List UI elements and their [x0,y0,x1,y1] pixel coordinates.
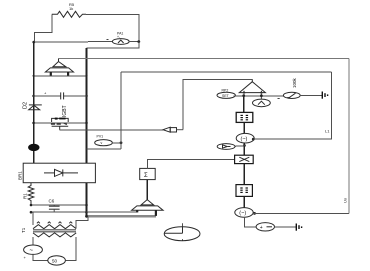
node junction at (261.4,95.8) [260,94,263,97]
wire A2 to node [235,145,244,148]
wire ammeter rail y=41.6 [34,41,113,44]
node junction at (121,142.8) [120,141,123,144]
svg-text:~: ~ [30,248,34,254]
block A3 multiplier box [235,155,254,163]
wire long drive wire y=129.8 to connector [60,129,163,131]
resistor R5 [52,2,86,17]
wire R5 right to vertical drop [86,14,139,41]
source G5 plus ellipse [256,223,274,231]
svg-text:PV1: PV1 [97,135,104,139]
wire feedback rail y=71.8 [121,71,331,73]
ammeter PA1 [112,32,129,45]
svg-text:SET: SET [222,94,230,98]
node junction at (244.4,145.5) [243,144,246,147]
node junction at (86.5,95.9) [85,95,88,98]
wire T1 primary right riser [76,216,88,228]
svg-text:(~): (~) [241,137,248,143]
resistor R1 vertical zigzag [23,183,34,205]
svg-text:+: + [24,255,27,260]
node junction at (86.5,205) [85,204,88,207]
wire top-left step from R5 to left bus [34,14,51,42]
svg-text:Σ: Σ [144,173,148,179]
node junction at (86.5,216.3) [85,215,88,218]
node junction at (254.5,213.4) [253,212,256,215]
svg-text:R1: R1 [23,193,28,199]
transformer T1 [21,222,76,237]
wire G1 to G2 [33,254,48,260]
left bus vertical x=33.4 [33,42,35,163]
pot RP2 SET ellipse [217,88,235,98]
wire thick gray rail y=216.3 [87,215,156,217]
ground GND1 sideways [322,92,327,99]
motor M1 ellipse [164,223,200,240]
wire T1 primary left riser [32,212,34,225]
wire ammeter right to node [129,41,139,43]
node junction at (33.6,122.9) [32,122,35,125]
box M modulator A5 [140,168,156,179]
wire rail thin to B2 left foot [87,211,138,213]
node junction at (31,205) [30,204,33,207]
svg-text:+: + [44,91,47,96]
wire H1 drop from node [243,96,245,112]
node junction at (138.8,41.6) [137,40,140,43]
svg-text:IGBT: IGBT [62,105,68,117]
diode VD inside rectifier box [44,169,78,176]
connector X1 arrow [163,127,183,132]
transducer B2 stacked triangle [132,200,164,216]
wire H1 to G3 [243,122,245,133]
svg-text:(~): (~) [239,211,246,217]
wire input rail y=95.8 [234,95,284,97]
svg-text:100k: 100k [292,77,297,88]
source G3 sine circle [236,133,254,143]
wire RP1 to ground [300,94,322,96]
wire G4 bottom to G5 [244,217,256,227]
wire B1 base rail y=75.8 [34,75,87,77]
right bus vertical x=86.5 upper [86,48,88,163]
svg-text:+: + [260,225,263,231]
pot RP1 100k [278,77,301,99]
wire voltmeter right to node [112,142,121,144]
block A4 box H2 [236,185,252,197]
node junction at (31,212.2) [30,211,33,214]
source G4 sine circle [235,208,253,218]
node junction at (86.5,212.2) [85,211,88,214]
source G1 AC [24,245,43,260]
voltmeter PV1 [95,135,113,146]
wire rail L2 y=212.2 [31,211,87,213]
svg-text:T1: T1 [21,227,26,233]
node junction at (33.6,75.8) [33,75,35,77]
wire H2 to G4 [243,196,245,207]
node junction at (33.6,95.9) [32,95,35,98]
ground GND2 sideways [296,224,301,231]
svg-text:BR1: BR1 [18,171,23,180]
node junction at (243.7,95.8) [242,94,245,97]
wire capacitor rail y=95.9 [34,95,87,97]
wire G3 right to feedback riser [253,72,331,139]
node polarity mark left of PA1 [107,39,109,40]
svg-text:50: 50 [52,259,58,264]
source G2 50Hz [48,256,66,265]
wire outer loop right vertical [348,58,350,213]
wire G2 to secondary right lead [65,237,76,261]
wire G3 to multiplier [243,143,245,155]
amp A2 ellipse with triangle [217,144,235,150]
block A1 box H1 [236,112,253,122]
right bus vertical x=86.5 lower [86,183,88,217]
wire from node down and left to right bus top [87,42,139,48]
wire rail L1 y=205 [31,204,87,206]
node junction at left bus top [32,41,35,44]
ammeter PA2 [253,99,271,107]
svg-text:D2: D2 [23,102,29,109]
svg-text:RP2: RP2 [222,88,229,92]
svg-text:v: v [101,141,103,145]
wire top long rail y=58.4 [59,57,349,59]
capacitor C2 [44,91,64,100]
wire box M bottom to B2 apex [146,180,148,200]
op-amp N1 triangle [239,79,265,99]
fuse FU solid oval on left bus [29,144,39,150]
svg-text:1k: 1k [69,6,73,11]
wire op-amp output drop x=183.2 [183,79,252,129]
svg-text:Uo: Uo [343,197,348,203]
wire G5 to ground [275,226,296,228]
transducer B1 stacked triangle [45,58,73,75]
svg-text:C6: C6 [49,199,55,204]
svg-text:L1: L1 [325,129,330,134]
wire A3 to H2 [243,164,245,185]
node junction at (253.3,139.1) [252,138,255,141]
wire gate rail y=122.9 [34,122,87,124]
capacitor C1 [49,199,60,213]
wire T1 secondary left lead [32,237,34,245]
diode D2 on left bus [23,102,42,110]
node junction at (86.5,75.8) [85,75,87,77]
wire bus to x=121 at y=148.9 [87,148,122,150]
node junction at (86.5,122.9) [85,122,88,125]
wire feedback left drop x=121 [120,72,122,149]
rectifier box U2 [18,163,96,183]
wire G4 right output rail y=213.4 [253,212,349,214]
transistor V3 symbol [51,118,68,129]
wire box M top to multiplier [147,160,234,169]
